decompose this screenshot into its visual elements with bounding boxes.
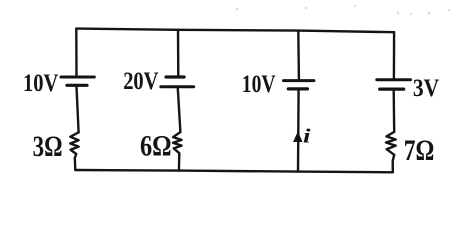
- svg-text:6Ω: 6Ω: [140, 130, 172, 163]
- wire: branch 1 lower segment (R1 to bottom bus): [74, 158, 77, 170]
- svg-text:3Ω: 3Ω: [33, 130, 63, 163]
- resistor R1 3-ohm zigzag: [70, 132, 78, 158]
- wire: branch 2 middle segment (V2 to R2): [178, 88, 181, 132]
- battery V2 20V short plate (-): [166, 75, 184, 78]
- battery V3 10V long plate (+): [284, 79, 314, 82]
- battery V1 10V short plate (-): [67, 84, 87, 87]
- svg-text:7Ω: 7Ω: [404, 134, 435, 167]
- resistor R3 7-ohm zigzag: [386, 132, 396, 155]
- battery V1 10V long plate (+): [61, 76, 94, 79]
- wire: branch 3 lower segment with current i (V3 - to bottom bus): [297, 90, 300, 171]
- battery V4 3V short plate (-): [380, 87, 404, 90]
- wire: branch 4 lower segment (R3 to bottom bus): [393, 155, 395, 173]
- wire: branch 1 middle segment (V1 - to R1): [77, 87, 79, 133]
- svg-text:20V: 20V: [123, 68, 158, 95]
- wire: branch 3 upper segment (top bus to V3 +): [297, 31, 300, 79]
- wire: branch 4 middle segment (V4 - to R3): [393, 90, 396, 132]
- svg-text:10V: 10V: [242, 71, 276, 98]
- svg-text:3V: 3V: [413, 75, 439, 102]
- resistor R2 6-ohm zigzag: [173, 132, 182, 153]
- wire: bottom bus from node E to node H: [75, 170, 393, 172]
- wire: branch 4 upper segment (top bus to V4 +): [393, 32, 396, 78]
- battery V2 20V long plate (+): [161, 85, 194, 88]
- wire: branch 2 lower segment (R2 to bottom bus): [178, 153, 181, 170]
- svg-text:i: i: [303, 126, 311, 147]
- paper background: [0, 0, 469, 187]
- scan speck cluster top right: [236, 5, 450, 15]
- battery V4 3V long plate (+): [377, 78, 411, 81]
- wire: branch 1 upper segment (top bus to V1 +): [75, 29, 78, 76]
- svg-text:10V: 10V: [23, 70, 58, 97]
- current arrow i (arrowhead on branch 3): [293, 131, 302, 142]
- battery V3 10V short plate (-): [288, 87, 307, 90]
- wire: top bus from node A to node D: [77, 29, 395, 33]
- wire: branch 2 upper segment (top bus to V2): [177, 30, 180, 76]
